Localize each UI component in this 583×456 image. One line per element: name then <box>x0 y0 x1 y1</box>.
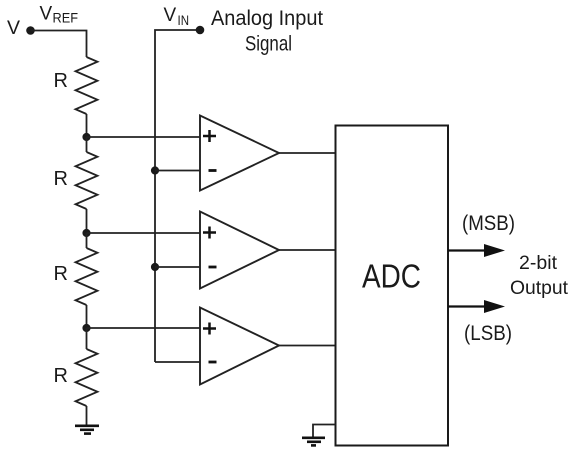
wire node1 to R2 <box>86 137 88 152</box>
svg-text:IN: IN <box>178 13 190 28</box>
wire R1 to node 1 <box>86 114 88 137</box>
wire VIN vertical bus <box>155 30 200 362</box>
wire R2 to node 2 <box>86 209 88 233</box>
svg-text:2-bit: 2-bit <box>519 252 558 274</box>
wire LSB output arrow <box>448 305 488 307</box>
ADC block U4 <box>336 126 449 446</box>
wire node3 to R4 <box>86 328 88 349</box>
svg-text:V: V <box>164 5 177 26</box>
svg-text:Analog Input: Analog Input <box>211 7 323 30</box>
resistor R4 <box>76 349 98 406</box>
wire ADC to ground <box>313 425 336 437</box>
svg-text:Signal: Signal <box>245 33 292 56</box>
wire R3 to node 3 <box>86 305 88 328</box>
svg-text:R: R <box>54 70 68 92</box>
wire U2 output to ADC <box>279 249 335 251</box>
ground (resistor ladder) <box>75 426 99 434</box>
wire MSB output arrow <box>448 249 488 251</box>
ground (ADC) <box>302 438 325 446</box>
node VREF dot <box>26 26 35 35</box>
node 1 junction dot <box>82 133 90 141</box>
wire tap 1 to comparator U1 + input <box>87 136 201 138</box>
wire node2 to R3 <box>86 233 88 248</box>
wire U1 output to ADC <box>279 152 335 154</box>
svg-text:(LSB): (LSB) <box>464 321 512 345</box>
node 3 junction dot <box>82 324 90 332</box>
node VIN tap B dot <box>151 263 159 271</box>
U1 plus sign <box>203 130 216 142</box>
wire VIN to comparator U3 - input <box>155 361 200 363</box>
U3 minus sign <box>209 361 217 364</box>
node 2 junction dot <box>82 229 90 237</box>
node VIN tap A dot <box>151 166 159 174</box>
op-amp U2 (comparator) <box>200 212 279 289</box>
svg-text:R: R <box>54 263 68 285</box>
U2 minus sign <box>209 266 217 269</box>
wire tap 3 to comparator U3 + input <box>87 327 201 329</box>
svg-text:(MSB): (MSB) <box>462 211 515 235</box>
U1 minus sign <box>209 169 217 172</box>
op-amp U1 (comparator) <box>200 116 279 191</box>
resistor R1 <box>76 57 98 114</box>
svg-text:REF: REF <box>53 11 79 26</box>
wire VIN to comparator U1 - input <box>155 170 200 172</box>
svg-text:R: R <box>54 365 68 387</box>
U3 plus sign <box>203 323 216 335</box>
svg-text:V: V <box>40 4 53 25</box>
wire tap 2 to comparator U2 + input <box>87 232 201 234</box>
node VIN dot <box>196 26 205 35</box>
svg-text:Output: Output <box>510 277 569 299</box>
op-amp U3 (comparator) <box>200 308 279 385</box>
resistor R3 <box>76 248 98 305</box>
svg-text:R: R <box>54 168 68 190</box>
wire R4 to ground <box>86 406 88 425</box>
wire VREF to ladder top <box>31 31 87 58</box>
svg-text:V: V <box>7 17 20 39</box>
svg-text:ADC: ADC <box>362 258 421 295</box>
U2 plus sign <box>203 227 216 239</box>
wire U3 output to ADC <box>279 345 335 347</box>
resistor R2 <box>76 152 98 209</box>
wire VIN to comparator U2 - input <box>155 266 200 268</box>
